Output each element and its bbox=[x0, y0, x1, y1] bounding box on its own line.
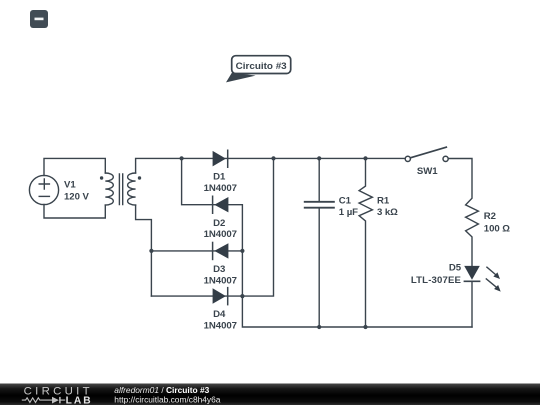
svg-text:1 µF: 1 µF bbox=[339, 207, 358, 218]
svg-text:LTL-307EE: LTL-307EE bbox=[411, 275, 462, 286]
svg-text:3 kΩ: 3 kΩ bbox=[377, 207, 398, 218]
svg-text:Circuito #3: Circuito #3 bbox=[236, 61, 287, 72]
svg-text:D3: D3 bbox=[213, 264, 225, 275]
svg-text:D4: D4 bbox=[213, 309, 226, 320]
svg-text:C1: C1 bbox=[339, 195, 352, 206]
svg-text:D5: D5 bbox=[449, 262, 462, 273]
svg-text:V1: V1 bbox=[64, 179, 76, 190]
svg-text:1N4007: 1N4007 bbox=[204, 229, 237, 240]
svg-text:R2: R2 bbox=[484, 211, 496, 222]
svg-text:1N4007: 1N4007 bbox=[204, 275, 237, 286]
svg-text:LAB: LAB bbox=[66, 396, 91, 405]
svg-text:D1: D1 bbox=[213, 172, 226, 183]
svg-text:1N4007: 1N4007 bbox=[204, 183, 237, 194]
svg-text:120 V: 120 V bbox=[64, 192, 89, 203]
svg-text:SW1: SW1 bbox=[417, 166, 438, 177]
svg-text:D2: D2 bbox=[213, 218, 225, 229]
svg-text:R1: R1 bbox=[377, 195, 390, 206]
svg-text:100 Ω: 100 Ω bbox=[484, 223, 510, 234]
svg-text:http://circuitlab.com/c8h4y6a: http://circuitlab.com/c8h4y6a bbox=[114, 394, 220, 404]
svg-text:1N4007: 1N4007 bbox=[204, 321, 237, 332]
svg-text:alfredorm01 / Circuito #3: alfredorm01 / Circuito #3 bbox=[114, 385, 209, 395]
